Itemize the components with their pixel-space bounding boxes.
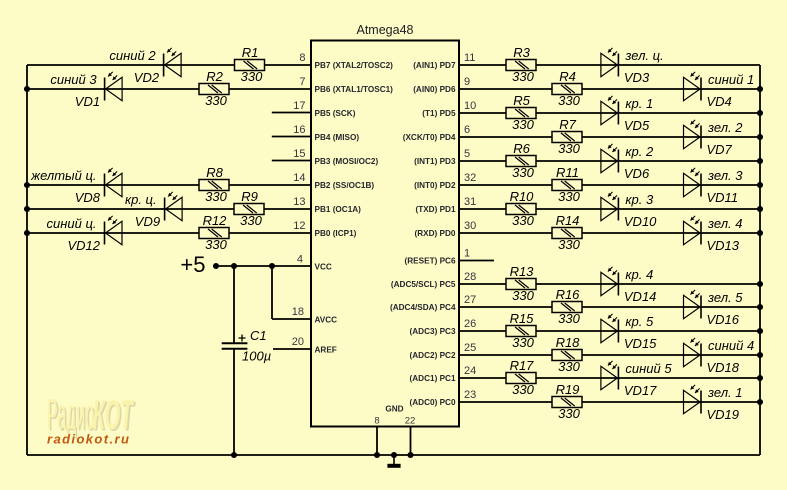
label кр. 4 [625, 267, 653, 282]
svg-text:(RESET) PC6: (RESET) PC6 [405, 257, 456, 266]
label VD5 [624, 118, 650, 133]
svg-text:PB5 (SCK): PB5 (SCK) [315, 109, 356, 118]
R4 value 330 [558, 93, 580, 108]
LED VD2 [164, 48, 182, 77]
resistor R3 [506, 60, 536, 71]
wire pin 32 to R11 [459, 184, 552, 186]
wire R10 through VD10 to right bus [536, 208, 760, 210]
label кр. 2 [625, 144, 654, 159]
wire C1 bottom lead [233, 349, 235, 455]
wire left cathode bus [26, 65, 28, 455]
svg-text:синий 4: синий 4 [708, 338, 754, 353]
svg-text:9: 9 [464, 76, 470, 88]
resistor R7 [552, 132, 582, 143]
label R17 [510, 358, 535, 373]
IC pin label PB3 [315, 157, 379, 166]
svg-text:31: 31 [464, 196, 476, 208]
svg-text:15: 15 [293, 148, 305, 160]
junction left bus / VD1 row [24, 86, 30, 92]
label R19 [556, 382, 580, 397]
svg-text:22: 22 [405, 416, 416, 427]
svg-text:PB0 (ICP1): PB0 (ICP1) [315, 229, 357, 238]
wire R3 through VD3 to right bus [536, 64, 760, 66]
svg-text:14: 14 [293, 172, 305, 184]
svg-text:330: 330 [512, 382, 534, 397]
label зел. 5 [707, 290, 743, 305]
svg-text:(RXD) PD0: (RXD) PD0 [415, 229, 456, 238]
svg-text:кр. 4: кр. 4 [625, 267, 653, 282]
label VD8 [75, 190, 101, 205]
node +5 terminal [213, 263, 219, 269]
svg-text:330: 330 [512, 335, 534, 350]
svg-text:(TXD) PD1: (TXD) PD1 [415, 205, 455, 214]
resistor R13 [506, 279, 536, 290]
label R15 [510, 311, 535, 326]
svg-text:1: 1 [464, 248, 470, 260]
IC pin label PB5 [315, 109, 356, 118]
svg-text:зел. 2: зел. 2 [707, 120, 743, 135]
label R8 [206, 165, 223, 180]
svg-text:(ADC3) PC3: (ADC3) PC3 [410, 327, 456, 336]
label R3 [513, 45, 530, 60]
wire R9 to pin 13 [264, 208, 311, 210]
wire GND pin 22 to bus [410, 426, 412, 455]
label VD6 [624, 166, 650, 181]
svg-text:23: 23 [464, 389, 476, 401]
R11 value 330 [558, 189, 580, 204]
svg-text:330: 330 [205, 189, 227, 204]
wire R16 through VD16 to right bus [582, 306, 760, 308]
pin 7 number [299, 76, 305, 88]
junction VCC / AVCC branch [269, 263, 275, 269]
svg-text:radiokot.ru: radiokot.ru [47, 432, 130, 447]
resistor R19 [552, 397, 582, 408]
label R12 [203, 213, 228, 228]
svg-text:24: 24 [464, 365, 476, 377]
svg-text:5: 5 [464, 148, 470, 160]
label зел. ц. [624, 48, 663, 63]
svg-text:32: 32 [464, 172, 476, 184]
label R4 [559, 69, 576, 84]
LED VD16 [684, 290, 702, 319]
svg-text:PB1 (OC1A): PB1 (OC1A) [315, 205, 362, 214]
LED VD12 [105, 216, 123, 245]
wire pin 16 stub PB4 [272, 136, 311, 138]
pin 1 number [464, 248, 470, 260]
label VD15 [624, 336, 657, 351]
junction C1 / ground bus [231, 452, 237, 458]
label R11 [556, 165, 579, 180]
label R18 [556, 335, 581, 350]
node +5 supply [180, 252, 205, 277]
svg-text:зел. 3: зел. 3 [707, 168, 743, 183]
svg-text:R18: R18 [556, 335, 581, 350]
svg-text:(XCK/T0) PD4: (XCK/T0) PD4 [403, 133, 456, 142]
svg-text:13: 13 [293, 196, 305, 208]
junction GND pin 22 / bus [407, 452, 413, 458]
pin 14 number [293, 172, 305, 184]
IC pin label PB7 [315, 61, 394, 70]
R5 value 330 [512, 117, 534, 132]
label C1 value 100µ [242, 349, 271, 364]
IC pin label PC2 [410, 351, 456, 360]
svg-text:R2: R2 [206, 69, 223, 84]
junction right bus / VD19 row [757, 399, 763, 405]
IC pin label GND [385, 405, 403, 414]
pin 16 number [293, 124, 305, 136]
LED VD13 [684, 216, 702, 245]
resistor R9 [234, 204, 264, 215]
wire pin 26 to R15 [459, 330, 506, 332]
wire GND pin 8 to bus [376, 426, 378, 455]
svg-text:VD2: VD2 [134, 70, 160, 85]
LED VD7 [684, 120, 702, 149]
label зел. 4 [707, 216, 742, 231]
junction right bus / VD7 row [757, 134, 763, 140]
resistor R1 [235, 60, 265, 71]
IC pin label PB6 [315, 85, 394, 94]
svg-text:330: 330 [205, 237, 227, 252]
svg-text:VD19: VD19 [707, 407, 740, 422]
junction right bus / VD17 row [757, 375, 763, 381]
svg-text:PB2 (SS/OC1B): PB2 (SS/OC1B) [315, 181, 375, 190]
label VD10 [624, 214, 657, 229]
junction right bus / VD14 row [757, 281, 763, 287]
svg-text:R11: R11 [556, 165, 579, 180]
wire pin 23 to R19 [459, 401, 552, 403]
svg-text:VD15: VD15 [624, 336, 657, 351]
resistor R18 [552, 350, 582, 361]
junction right bus / VD18 row [757, 352, 763, 358]
pin 30 number [464, 220, 476, 232]
svg-text:PB4 (MISO): PB4 (MISO) [315, 133, 360, 142]
IC pin label PB0 [315, 229, 357, 238]
label R2 [206, 69, 223, 84]
wire pin 28 to R13 [459, 283, 506, 285]
label синий 2 [109, 48, 156, 63]
wire pin 11 to R3 [459, 64, 506, 66]
pin 9 number [464, 76, 470, 88]
svg-text:зел. 4: зел. 4 [707, 216, 742, 231]
svg-text:кр. 1: кр. 1 [625, 96, 653, 111]
IC pin label PD7 [413, 61, 456, 70]
LED VD19 [684, 385, 702, 414]
wire bus through VD9 to R9 [27, 208, 234, 210]
LED VD1 [105, 72, 123, 101]
svg-text:C1: C1 [250, 328, 267, 343]
svg-text:VD17: VD17 [624, 383, 657, 398]
IC pin label PB1 [315, 205, 362, 214]
svg-text:VD13: VD13 [707, 238, 740, 253]
R2 value 330 [205, 93, 227, 108]
R14 value 330 [558, 237, 580, 252]
wire pin 6 to R7 [459, 136, 552, 138]
label VD2 [134, 70, 160, 85]
label VD13 [707, 238, 740, 253]
label зел. 2 [707, 120, 743, 135]
svg-text:30: 30 [464, 220, 476, 232]
pin 23 number [464, 389, 476, 401]
wire pin 27 to R16 [459, 306, 552, 308]
junction GND pin 8 / bus [374, 452, 380, 458]
R7 value 330 [558, 141, 580, 156]
LED VD6 [601, 144, 619, 173]
wire pin 15 stub PB3 [272, 160, 311, 162]
wire R7 through VD7 to right bus [582, 136, 760, 138]
label кр. ц. [125, 192, 157, 207]
svg-text:8: 8 [374, 416, 379, 427]
svg-text:синий 2: синий 2 [109, 48, 156, 63]
resistor R2 [199, 84, 229, 95]
svg-text:(INT1) PD3: (INT1) PD3 [414, 157, 456, 166]
R6 value 330 [512, 165, 534, 180]
svg-text:VD18: VD18 [707, 360, 740, 375]
logo РадиоКОТ watermark [47, 390, 136, 441]
svg-text:(ADC1) PC1: (ADC1) PC1 [410, 374, 456, 383]
junction right bus / VD6 row [757, 158, 763, 164]
resistor R12 [199, 228, 229, 239]
label R16 [556, 287, 581, 302]
label синий 5 [625, 361, 672, 376]
svg-text:7: 7 [299, 76, 305, 88]
junction right bus / VD11 row [757, 182, 763, 188]
junction left bus / VD9 row [24, 206, 30, 212]
IC pin label PC1 [410, 374, 456, 383]
svg-text:зел. 1: зел. 1 [707, 385, 742, 400]
junction left bus / VD12 row [24, 230, 30, 236]
resistor R11 [552, 180, 582, 191]
IC pin label PD3 [414, 157, 456, 166]
resistor R17 [506, 373, 536, 384]
resistor R4 [552, 84, 582, 95]
label C1 [250, 328, 267, 343]
svg-text:VD16: VD16 [707, 312, 740, 327]
junction right bus / VD16 row [757, 304, 763, 310]
label R1 [242, 45, 259, 60]
wire R15 through VD15 to right bus [536, 330, 760, 332]
IC pin label PB4 [315, 133, 360, 142]
svg-text:VD5: VD5 [624, 118, 650, 133]
svg-text:R5: R5 [513, 93, 530, 108]
wire R12 to pin 12 [229, 232, 311, 234]
junction right bus / VD13 row [757, 230, 763, 236]
svg-text:330: 330 [240, 213, 262, 228]
pin 18 number [292, 306, 304, 318]
wire R14 through VD13 to right bus [582, 232, 760, 234]
label R10 [510, 189, 535, 204]
pin GND 8 number [374, 416, 379, 427]
svg-text:330: 330 [512, 117, 534, 132]
svg-text:VD7: VD7 [707, 142, 733, 157]
pin 10 number [464, 100, 476, 112]
pin 4 number [297, 254, 303, 266]
svg-text:желтый ц.: желтый ц. [30, 168, 96, 183]
svg-text:330: 330 [205, 93, 227, 108]
wire pin 24 to R17 [459, 377, 506, 379]
svg-text:330: 330 [558, 189, 580, 204]
svg-text:VCC: VCC [315, 263, 332, 272]
svg-text:R9: R9 [241, 189, 258, 204]
R3 value 330 [512, 69, 534, 84]
R16 value 330 [558, 311, 580, 326]
svg-text:AVCC: AVCC [315, 316, 338, 325]
R18 value 330 [558, 359, 580, 374]
label синий 3 [50, 72, 97, 87]
wire bus through VD8 to R8 [27, 184, 199, 186]
svg-text:16: 16 [293, 124, 305, 136]
pin 26 number [464, 318, 476, 330]
junction right bus / VD5 row [757, 110, 763, 116]
pin 13 number [293, 196, 305, 208]
wire R18 through VD18 to right bus [582, 354, 760, 356]
svg-text:AREF: AREF [315, 346, 337, 355]
svg-text:R13: R13 [510, 264, 535, 279]
svg-text:(ADC2) PC2: (ADC2) PC2 [410, 351, 456, 360]
R9 value 330 [240, 213, 262, 228]
junction right bus / VD15 row [757, 328, 763, 334]
svg-text:26: 26 [464, 318, 476, 330]
label VD16 [707, 312, 740, 327]
pin 5 number [464, 148, 470, 160]
label R7 [559, 117, 576, 132]
LED VD8 [105, 168, 123, 197]
pin 17 number [293, 100, 305, 112]
pin 8 number [299, 52, 305, 64]
wire AVCC branch vertical [271, 266, 273, 319]
resistor R16 [552, 302, 582, 313]
wire R5 through VD5 to right bus [536, 112, 760, 114]
wire R19 through VD19 to right bus [582, 401, 760, 403]
svg-text:R15: R15 [510, 311, 535, 326]
IC pin label PD6 [413, 85, 456, 94]
junction VCC / C1 branch [231, 263, 237, 269]
label R5 [513, 93, 530, 108]
label R6 [513, 141, 530, 156]
R10 value 330 [512, 213, 534, 228]
wire pin 9 to R4 [459, 88, 552, 90]
wire bus through VD1 to R2 [27, 88, 199, 90]
svg-text:12: 12 [293, 220, 305, 232]
svg-text:18: 18 [292, 306, 304, 318]
svg-text:330: 330 [241, 69, 263, 84]
svg-text:330: 330 [558, 406, 580, 421]
capacitor C1 [222, 335, 248, 349]
pin 27 number [464, 294, 476, 306]
svg-text:кр. 5: кр. 5 [625, 314, 654, 329]
wire +5 to VCC pin 4 [216, 265, 311, 267]
IC pin label PD2 [414, 181, 456, 190]
svg-text:R12: R12 [203, 213, 228, 228]
junction ground symbol / bus [391, 452, 397, 458]
svg-text:Atmega48: Atmega48 [357, 23, 414, 37]
wire bus through VD12 to R12 [27, 232, 199, 234]
svg-text:330: 330 [512, 288, 534, 303]
svg-text:синий ц.: синий ц. [46, 216, 96, 231]
svg-text:VD1: VD1 [75, 94, 100, 109]
svg-text:20: 20 [292, 336, 304, 348]
svg-text:VD9: VD9 [135, 214, 160, 229]
wire C1 top lead [233, 266, 235, 343]
IC pin label PD5 [422, 109, 456, 118]
label VD7 [707, 142, 733, 157]
LED VD3 [601, 48, 619, 77]
label VD11 [707, 190, 739, 205]
R8 value 330 [205, 189, 227, 204]
svg-text:кр. 2: кр. 2 [625, 144, 654, 159]
junction right bus / VD4 row [757, 86, 763, 92]
IC pin label AREF [315, 346, 337, 355]
wire R1 to pin 8 [265, 64, 312, 66]
svg-text:R4: R4 [559, 69, 576, 84]
label кр. 1 [625, 96, 653, 111]
LED VD15 [601, 314, 619, 343]
svg-text:кр. 3: кр. 3 [625, 192, 654, 207]
svg-text:(AIN0) PD6: (AIN0) PD6 [413, 85, 456, 94]
svg-text:4: 4 [297, 254, 303, 266]
label R13 [510, 264, 535, 279]
wire pin 31 to R10 [459, 208, 506, 210]
svg-text:330: 330 [558, 141, 580, 156]
label VD1 [75, 94, 100, 109]
label желтый ц. [30, 168, 96, 183]
LED VD5 [601, 96, 619, 125]
wire R4 through VD4 to right bus [582, 88, 760, 90]
svg-text:R14: R14 [556, 213, 580, 228]
wire R17 through VD17 to right bus [536, 377, 760, 379]
wire R6 through VD6 to right bus [536, 160, 760, 162]
svg-text:синий 5: синий 5 [625, 361, 672, 376]
svg-text:8: 8 [299, 52, 305, 64]
logo radiokot.ru [47, 432, 130, 447]
pin 11 number [464, 52, 475, 64]
label VD17 [624, 383, 657, 398]
IC pin label PD0 [415, 229, 456, 238]
svg-text:330: 330 [512, 213, 534, 228]
pin 24 number [464, 365, 476, 377]
wire R13 through VD14 to right bus [536, 283, 760, 285]
svg-text:R7: R7 [559, 117, 576, 132]
svg-text:VD10: VD10 [624, 214, 657, 229]
resistor R6 [506, 156, 536, 167]
svg-text:330: 330 [558, 93, 580, 108]
svg-text:28: 28 [464, 271, 476, 283]
R13 value 330 [512, 288, 534, 303]
label VD12 [67, 238, 100, 253]
svg-text:6: 6 [464, 124, 470, 136]
svg-text:(T1) PD5: (T1) PD5 [422, 109, 456, 118]
label VD3 [624, 70, 650, 85]
R12 value 330 [205, 237, 227, 252]
pin 32 number [464, 172, 476, 184]
svg-text:VD6: VD6 [624, 166, 650, 181]
svg-text:R8: R8 [206, 165, 223, 180]
wire to AVCC pin 18 [272, 318, 311, 320]
svg-text:25: 25 [464, 342, 476, 354]
svg-text:VD3: VD3 [624, 70, 650, 85]
pin 20 number [292, 336, 304, 348]
svg-text:11: 11 [464, 52, 475, 64]
svg-text:R3: R3 [513, 45, 530, 60]
svg-text:27: 27 [464, 294, 476, 306]
svg-text:330: 330 [558, 311, 580, 326]
LED VD11 [684, 168, 702, 197]
label кр. 3 [625, 192, 654, 207]
R17 value 330 [512, 382, 534, 397]
label VD18 [707, 360, 740, 375]
wire bottom ground bus [27, 454, 760, 456]
pin 28 number [464, 271, 476, 283]
IC U1 name Atmega48 [357, 23, 414, 37]
